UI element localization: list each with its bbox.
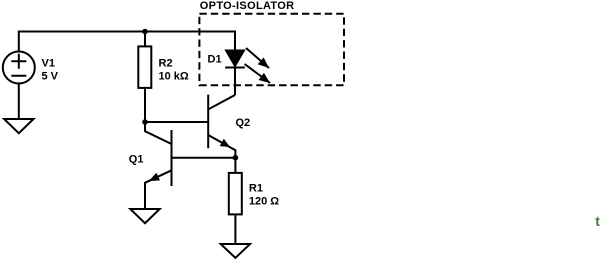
svg-text:120 Ω: 120 Ω bbox=[249, 196, 279, 208]
svg-text:5 V: 5 V bbox=[42, 71, 59, 83]
svg-text:t: t bbox=[595, 213, 600, 229]
svg-text:10 kΩ: 10 kΩ bbox=[159, 71, 189, 83]
svg-text:V1: V1 bbox=[42, 58, 55, 70]
svg-text:D1: D1 bbox=[208, 54, 222, 66]
svg-text:OPTO-ISOLATOR: OPTO-ISOLATOR bbox=[200, 0, 295, 12]
svg-text:R2: R2 bbox=[159, 58, 173, 70]
svg-text:Q2: Q2 bbox=[236, 117, 251, 129]
svg-text:R1: R1 bbox=[249, 182, 263, 194]
svg-text:Q1: Q1 bbox=[129, 154, 144, 166]
